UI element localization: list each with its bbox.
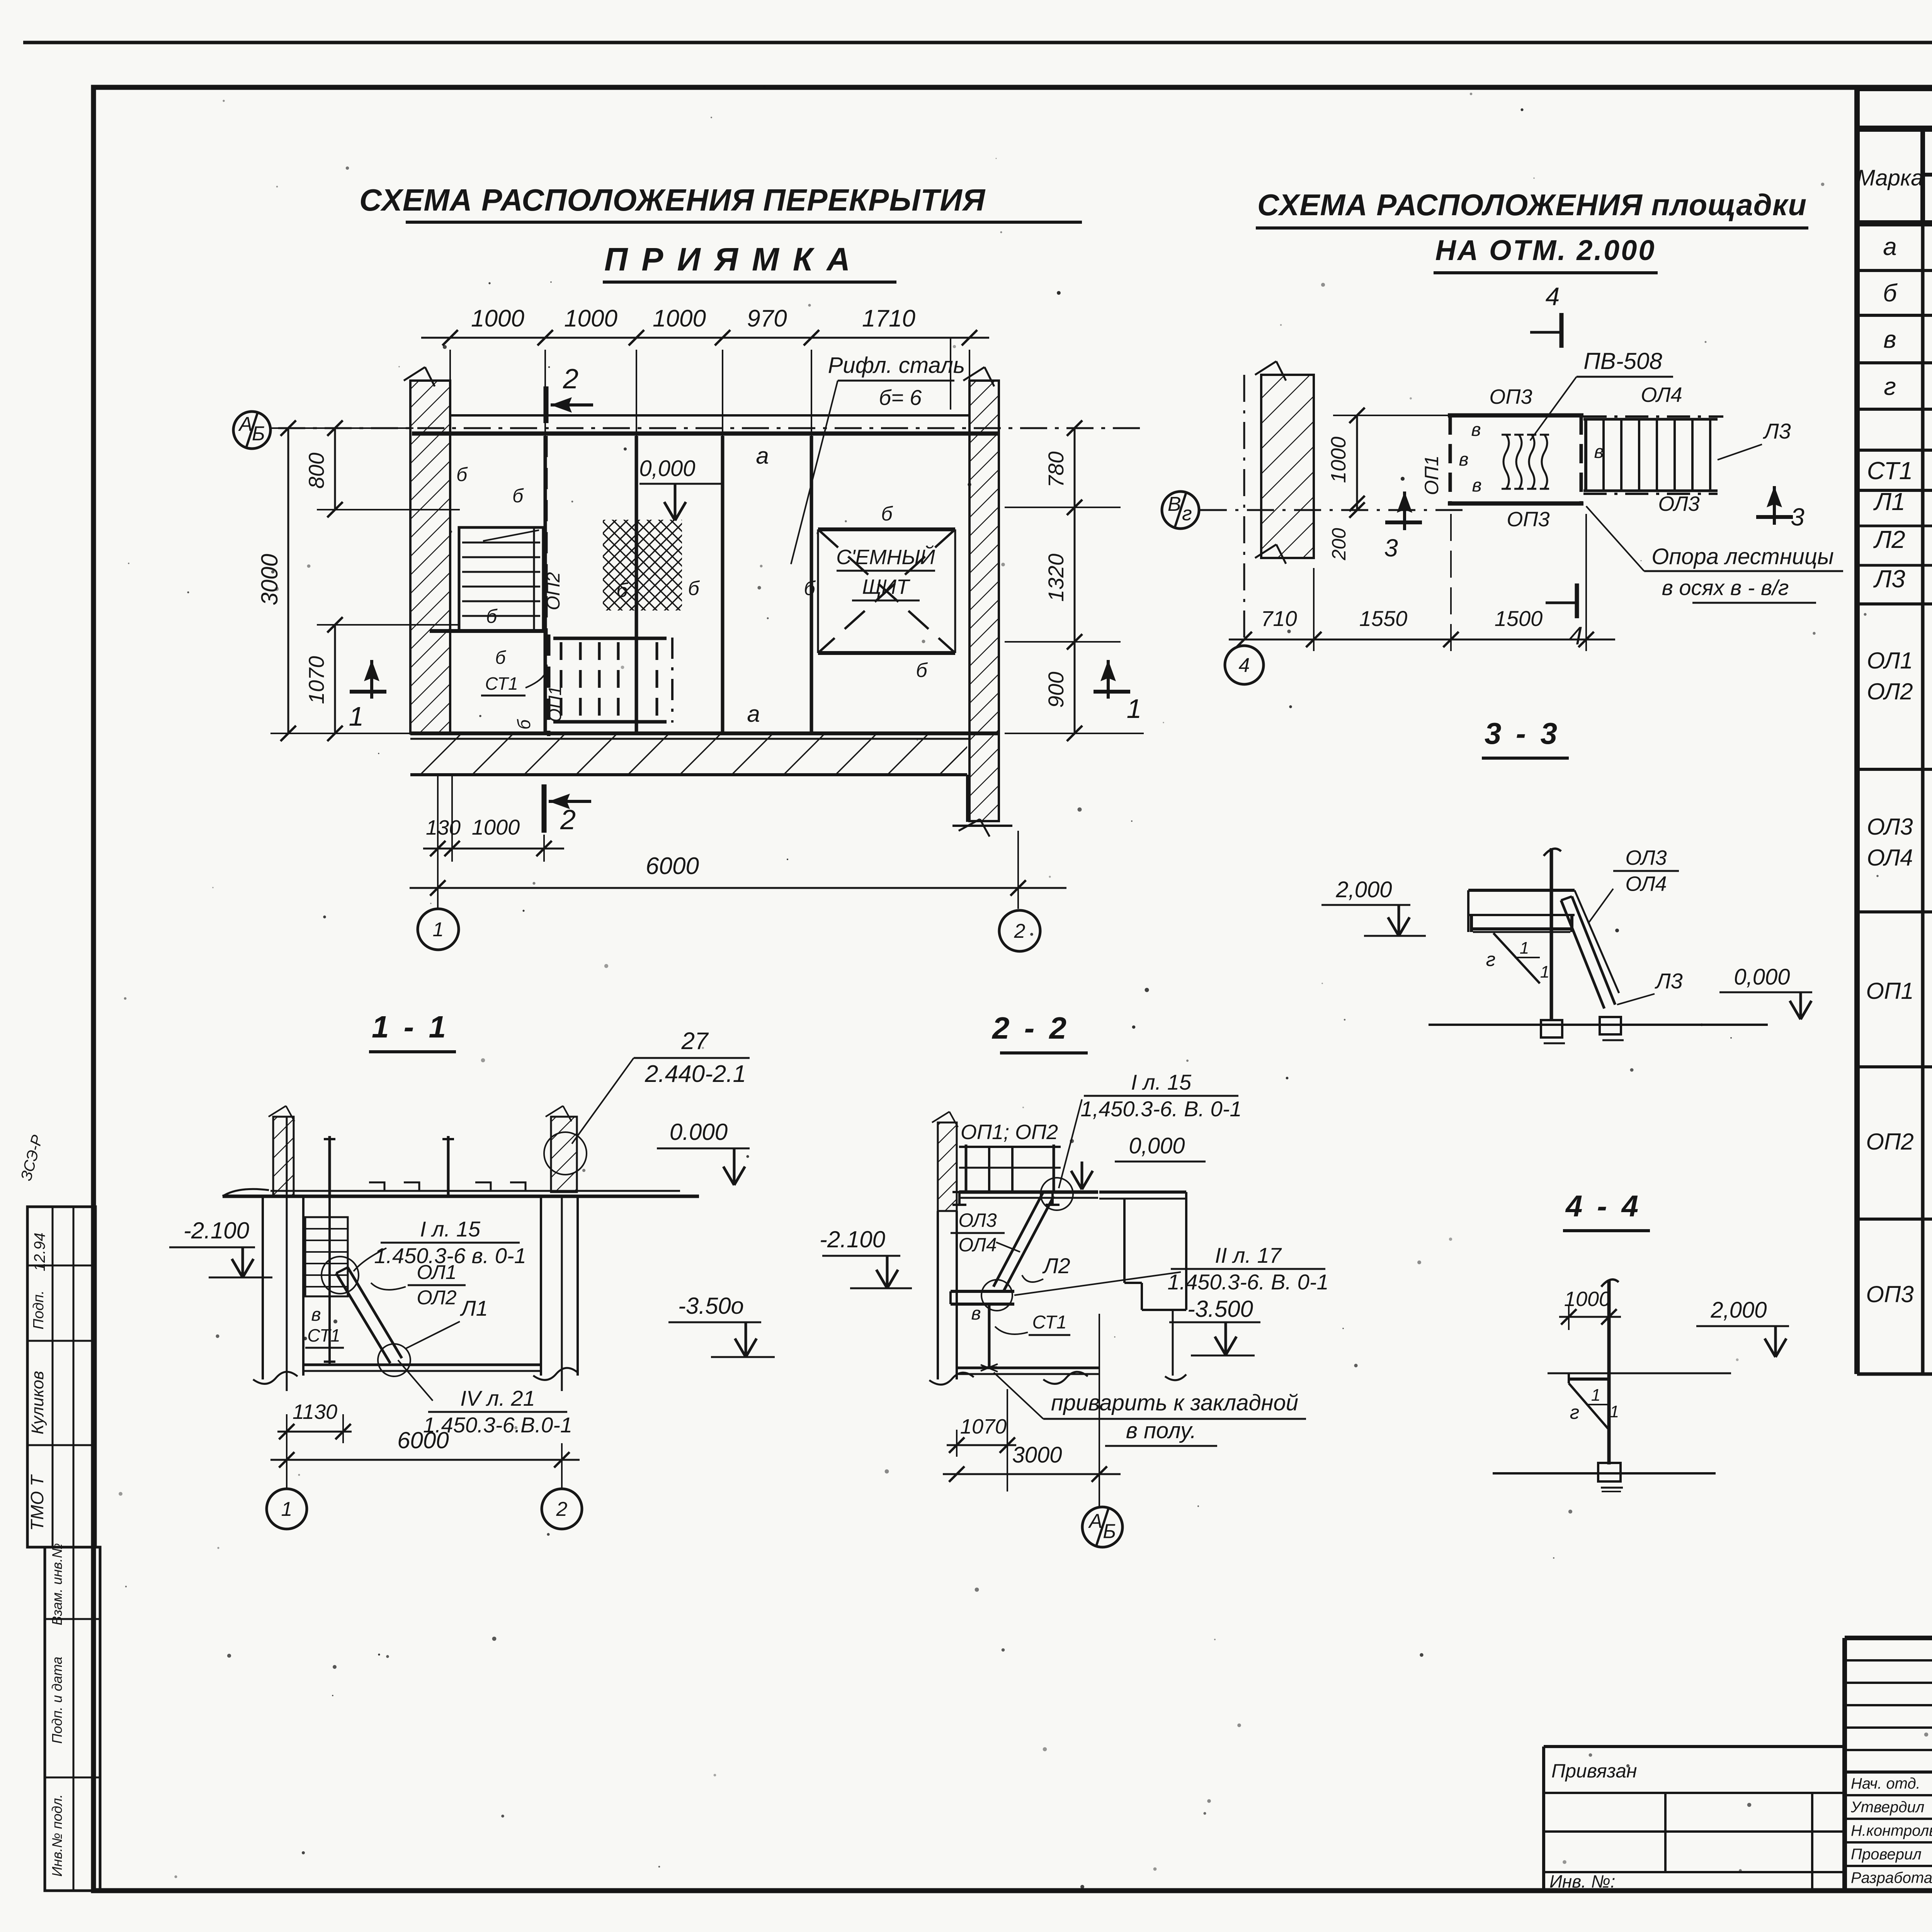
svg-text:ОЛ3: ОЛ3 bbox=[1658, 492, 1699, 515]
svg-text:ОЛ4: ОЛ4 bbox=[958, 1234, 997, 1256]
svg-text:3000: 3000 bbox=[257, 554, 282, 605]
svg-text:2: 2 bbox=[560, 804, 576, 835]
svg-text:ОП2: ОП2 bbox=[1866, 1129, 1914, 1155]
svg-text:б: б bbox=[881, 503, 893, 525]
svg-text:А: А bbox=[238, 413, 253, 435]
svg-text:1000: 1000 bbox=[472, 815, 520, 839]
svg-text:ОП3: ОП3 bbox=[1489, 385, 1532, 408]
svg-text:0.000: 0.000 bbox=[670, 1119, 728, 1145]
svg-text:3: 3 bbox=[1791, 503, 1804, 531]
svg-text:г: г bbox=[1182, 502, 1192, 525]
svg-text:ОЛ4: ОЛ4 bbox=[1641, 383, 1682, 406]
svg-text:Б: Б bbox=[1103, 1520, 1116, 1543]
svg-text:1000: 1000 bbox=[564, 305, 617, 332]
svg-text:1000: 1000 bbox=[471, 305, 524, 332]
svg-text:в: в bbox=[1459, 449, 1468, 470]
svg-text:1: 1 bbox=[349, 701, 364, 731]
svg-text:СХЕМА РАСПОЛОЖЕНИЯ ПЕРЕКРЫТ: СХЕМА РАСПОЛОЖЕНИЯ ПЕРЕКРЫТИЯ bbox=[359, 183, 986, 217]
svg-text:1: 1 bbox=[433, 918, 444, 941]
svg-text:I л. 15: I л. 15 bbox=[1131, 1070, 1192, 1094]
svg-text:СТ1: СТ1 bbox=[307, 1325, 340, 1345]
svg-text:2: 2 bbox=[1014, 920, 1026, 942]
svg-text:900: 900 bbox=[1044, 672, 1068, 707]
svg-text:780: 780 bbox=[1044, 451, 1068, 487]
svg-text:IV л. 21: IV л. 21 bbox=[460, 1386, 535, 1410]
svg-text:0,000: 0,000 bbox=[639, 456, 695, 481]
svg-text:г: г bbox=[1884, 372, 1896, 400]
svg-text:710: 710 bbox=[1261, 606, 1297, 631]
svg-text:ОЛ3: ОЛ3 bbox=[958, 1209, 997, 1231]
svg-text:1550: 1550 bbox=[1359, 606, 1408, 631]
svg-text:Л3: Л3 bbox=[1763, 419, 1791, 443]
svg-text:2.440-2.1: 2.440-2.1 bbox=[645, 1061, 746, 1087]
svg-text:-3.50о: -3.50о bbox=[678, 1293, 744, 1319]
svg-text:ОЛ4: ОЛ4 bbox=[1867, 845, 1913, 871]
svg-text:ОП1: ОП1 bbox=[1866, 978, 1914, 1004]
svg-text:1070: 1070 bbox=[304, 656, 328, 704]
svg-text:в осях в - в/г: в осях в - в/г bbox=[1662, 575, 1789, 600]
svg-text:в полу.: в полу. bbox=[1126, 1418, 1197, 1443]
svg-text:а: а bbox=[756, 443, 769, 469]
svg-text:а: а bbox=[747, 701, 760, 727]
svg-text:С'ЕМНЫЙ: С'ЕМНЫЙ bbox=[836, 545, 935, 569]
svg-text:1: 1 bbox=[1610, 1402, 1619, 1421]
svg-text:Л2: Л2 bbox=[1042, 1253, 1070, 1278]
svg-text:ПВ-508: ПВ-508 bbox=[1583, 348, 1662, 374]
svg-text:200: 200 bbox=[1328, 528, 1350, 561]
svg-text:800: 800 bbox=[304, 452, 328, 488]
svg-text:1: 1 bbox=[1540, 963, 1549, 981]
svg-text:1.450.3-6. В. 0-1: 1.450.3-6. В. 0-1 bbox=[1167, 1270, 1328, 1294]
svg-text:ОЛ1: ОЛ1 bbox=[417, 1261, 456, 1284]
svg-text:б: б bbox=[916, 659, 928, 682]
svg-text:б: б bbox=[1883, 279, 1898, 307]
svg-text:4: 4 bbox=[1546, 282, 1560, 311]
svg-text:ТМО Т: ТМО Т bbox=[27, 1474, 47, 1531]
svg-text:1: 1 bbox=[1591, 1386, 1600, 1405]
svg-text:-2.100: -2.100 bbox=[820, 1226, 885, 1252]
svg-text:СТ1: СТ1 bbox=[485, 673, 518, 694]
svg-text:Привязан: Привязан bbox=[1551, 1760, 1637, 1782]
svg-text:б: б bbox=[512, 485, 524, 507]
svg-text:2: 2 bbox=[556, 1498, 568, 1520]
svg-text:СХЕМА РАСПОЛОЖЕНИЯ площадки: СХЕМА РАСПОЛОЖЕНИЯ площадки bbox=[1257, 188, 1807, 222]
svg-text:Л2: Л2 bbox=[1873, 526, 1905, 553]
svg-text:II л. 17: II л. 17 bbox=[1215, 1243, 1282, 1267]
svg-text:Л1: Л1 bbox=[460, 1296, 488, 1320]
svg-text:ОП3: ОП3 bbox=[1866, 1281, 1914, 1307]
svg-text:1: 1 bbox=[1520, 939, 1529, 957]
svg-text:ОП2: ОП2 bbox=[543, 572, 564, 611]
svg-text:приварить к закладной: приварить к закладной bbox=[1051, 1390, 1298, 1415]
svg-text:ОЛ2: ОЛ2 bbox=[417, 1286, 456, 1309]
svg-text:1000: 1000 bbox=[1327, 437, 1350, 483]
svg-text:3: 3 bbox=[1384, 534, 1398, 562]
svg-text:4 - 4: 4 - 4 bbox=[1565, 1189, 1641, 1223]
svg-text:Б: Б bbox=[252, 422, 265, 445]
svg-text:В: В bbox=[1168, 493, 1181, 515]
svg-text:1070: 1070 bbox=[960, 1415, 1007, 1438]
svg-text:б: б bbox=[616, 579, 628, 602]
svg-text:Марка: Марка bbox=[1856, 165, 1923, 190]
svg-text:Куликов: Куликов bbox=[28, 1371, 47, 1434]
svg-text:в: в bbox=[1594, 442, 1604, 462]
svg-text:6000: 6000 bbox=[646, 853, 699, 879]
svg-text:Подп.: Подп. bbox=[31, 1290, 47, 1329]
svg-text:Инв. №:: Инв. №: bbox=[1549, 1871, 1615, 1891]
svg-text:в: в bbox=[1883, 325, 1896, 353]
svg-text:Л3: Л3 bbox=[1873, 565, 1905, 593]
svg-text:1710: 1710 bbox=[862, 305, 915, 332]
svg-text:г: г bbox=[1570, 1401, 1580, 1423]
svg-text:Нач. отд.: Нач. отд. bbox=[1851, 1775, 1920, 1792]
svg-text:СТ1: СТ1 bbox=[1867, 457, 1913, 485]
svg-text:2 - 2: 2 - 2 bbox=[992, 1011, 1070, 1045]
svg-text:0,000: 0,000 bbox=[1734, 964, 1790, 990]
svg-text:1500: 1500 bbox=[1495, 606, 1543, 631]
svg-text:ПРИЯМКА: ПРИЯМКА bbox=[604, 241, 864, 277]
svg-text:б= 6: б= 6 bbox=[879, 385, 922, 410]
svg-text:ОЛ3: ОЛ3 bbox=[1867, 814, 1913, 840]
svg-text:Подп. и дата: Подп. и дата bbox=[49, 1656, 65, 1743]
svg-text:Л1: Л1 bbox=[1873, 488, 1905, 515]
svg-text:А: А bbox=[1088, 1510, 1102, 1532]
svg-text:ОП1; ОП2: ОП1; ОП2 bbox=[961, 1121, 1058, 1144]
svg-text:ОЛ4: ОЛ4 bbox=[1625, 872, 1667, 895]
svg-text:ОП1: ОП1 bbox=[1421, 456, 1442, 495]
svg-text:Взам. инв.№: Взам. инв.№ bbox=[49, 1543, 65, 1626]
svg-text:1: 1 bbox=[1127, 694, 1142, 724]
svg-text:Разработал: Разработал bbox=[1851, 1869, 1932, 1886]
svg-text:Опора лестницы: Опора лестницы bbox=[1651, 544, 1834, 569]
svg-text:970: 970 bbox=[747, 305, 787, 332]
svg-text:б: б bbox=[804, 577, 816, 600]
svg-text:2: 2 bbox=[563, 364, 578, 395]
svg-text:ОП3: ОП3 bbox=[1507, 508, 1549, 531]
svg-text:Утвердил: Утвердил bbox=[1850, 1799, 1924, 1816]
svg-text:2,000: 2,000 bbox=[1335, 877, 1392, 902]
svg-text:Рифл. сталь: Рифл. сталь bbox=[828, 353, 965, 378]
svg-text:1: 1 bbox=[281, 1498, 293, 1520]
svg-text:27: 27 bbox=[681, 1028, 709, 1054]
svg-text:12.94: 12.94 bbox=[31, 1233, 48, 1271]
svg-text:1,450.3-6. В. 0-1: 1,450.3-6. В. 0-1 bbox=[1080, 1097, 1242, 1121]
svg-text:-2.100: -2.100 bbox=[184, 1218, 249, 1243]
svg-text:Инв.№ подл.: Инв.№ подл. bbox=[49, 1794, 65, 1876]
svg-text:Л3: Л3 bbox=[1655, 969, 1683, 993]
svg-text:3000: 3000 bbox=[1012, 1442, 1062, 1468]
svg-text:ОЛ2: ОЛ2 bbox=[1867, 679, 1913, 704]
svg-text:а: а bbox=[1883, 233, 1897, 260]
svg-text:Проверил: Проверил bbox=[1851, 1846, 1922, 1863]
svg-text:1130: 1130 bbox=[293, 1400, 337, 1423]
svg-text:3 - 3: 3 - 3 bbox=[1485, 716, 1560, 750]
svg-text:б: б bbox=[456, 464, 468, 485]
svg-text:1 - 1: 1 - 1 bbox=[372, 1010, 449, 1044]
svg-text:ОЛ1: ОЛ1 bbox=[1867, 648, 1913, 673]
svg-text:I л. 15: I л. 15 bbox=[420, 1217, 481, 1241]
svg-text:2,000: 2,000 bbox=[1710, 1298, 1767, 1323]
svg-text:в: в bbox=[1472, 475, 1481, 496]
svg-text:1000: 1000 bbox=[653, 305, 706, 332]
svg-text:б: б bbox=[688, 577, 700, 600]
svg-text:в: в bbox=[1471, 420, 1481, 440]
svg-text:1000: 1000 bbox=[1564, 1287, 1611, 1311]
svg-text:1320: 1320 bbox=[1044, 554, 1068, 602]
svg-text:6000: 6000 bbox=[397, 1427, 449, 1453]
svg-text:в: в bbox=[311, 1304, 321, 1325]
svg-text:б: б bbox=[486, 605, 498, 627]
svg-text:130: 130 bbox=[426, 816, 461, 839]
svg-text:Н.контроль: Н.контроль bbox=[1851, 1822, 1932, 1839]
svg-text:НА ОТМ. 2.000: НА ОТМ. 2.000 bbox=[1435, 234, 1656, 266]
svg-text:в: в bbox=[971, 1303, 981, 1324]
svg-text:б: б bbox=[514, 719, 534, 730]
svg-text:г: г bbox=[1486, 949, 1496, 970]
svg-text:ЩИТ: ЩИТ bbox=[862, 575, 910, 599]
svg-text:4: 4 bbox=[1239, 654, 1250, 677]
svg-text:0,000: 0,000 bbox=[1129, 1133, 1185, 1158]
svg-text:б: б bbox=[495, 648, 507, 668]
svg-text:СТ1: СТ1 bbox=[1032, 1312, 1066, 1333]
svg-text:-3.500: -3.500 bbox=[1187, 1296, 1253, 1322]
svg-text:ОЛ3: ОЛ3 bbox=[1625, 846, 1667, 869]
